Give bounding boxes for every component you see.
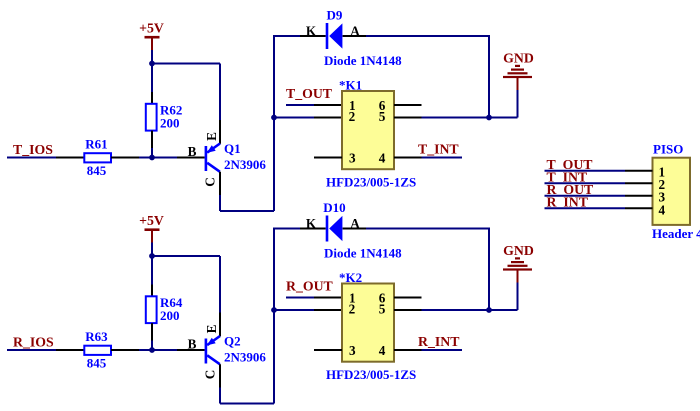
svg-text:R61: R61 <box>85 137 107 152</box>
wire collector down-right (bottom) <box>220 364 274 403</box>
relay pin 3 stub (top) <box>314 157 342 159</box>
wire GND stem (top) <box>517 90 519 118</box>
svg-text:2N3906: 2N3906 <box>224 157 266 172</box>
resistor R61 <box>84 137 111 178</box>
junction +5V node (top) <box>149 61 155 67</box>
svg-text:C: C <box>203 177 218 187</box>
wire R_OUT to header pin 3 <box>545 195 653 197</box>
wire anode vertical to pin5 node (bottom) <box>488 228 490 311</box>
relay pin 6 stub (top) <box>394 104 422 106</box>
svg-text:K: K <box>306 23 317 38</box>
svg-text:B: B <box>188 336 197 351</box>
wire R_OUT to relay pin 1 (bottom) <box>286 297 342 299</box>
wire T_OUT to relay pin 1 (top) <box>286 104 342 106</box>
wire +5V stem to junction (bottom) <box>151 243 153 257</box>
svg-text:4: 4 <box>659 203 666 218</box>
wire left vertical cathode net (bottom) <box>273 228 275 404</box>
svg-text:*K2: *K2 <box>339 270 362 285</box>
wire R64 bottom to base junction (bottom) <box>151 323 153 350</box>
junction pin2 node (top) <box>271 115 277 121</box>
wire R62 bottom to base junction (top) <box>151 131 153 158</box>
svg-text:4: 4 <box>379 343 386 358</box>
svg-text:2: 2 <box>349 302 356 317</box>
svg-text:HFD23/005-1ZS: HFD23/005-1ZS <box>326 174 416 189</box>
wire R_IOS to R63 (bottom) <box>7 349 84 351</box>
svg-text:R_INT: R_INT <box>418 334 459 349</box>
wire collector down-right (top) <box>220 172 274 211</box>
wire GND stem (bottom) <box>517 283 519 311</box>
wire cathode to diode (bottom) <box>274 228 326 230</box>
svg-text:Q1: Q1 <box>224 141 241 156</box>
svg-text:5: 5 <box>379 302 386 317</box>
wire T_INT to header pin 2 <box>545 182 653 184</box>
wire diode anode to GND drop (bottom) <box>343 228 489 230</box>
diode D10 1N4148 <box>306 200 402 260</box>
svg-text:R_OUT: R_OUT <box>286 279 333 294</box>
svg-text:4: 4 <box>379 150 386 165</box>
power +5V (bottom) <box>139 213 164 243</box>
wire cathode to diode (top) <box>274 35 326 37</box>
relay K2 HFD23/005-1ZS <box>326 270 416 382</box>
svg-text:845: 845 <box>87 356 107 371</box>
svg-text:3: 3 <box>349 150 356 165</box>
svg-text:T_IOS: T_IOS <box>13 142 53 157</box>
junction pin2 node (bottom) <box>271 307 277 313</box>
svg-text:D9: D9 <box>327 7 343 22</box>
ground GND (top) <box>503 50 534 90</box>
wire diode anode to GND drop (top) <box>343 35 489 37</box>
svg-text:5: 5 <box>379 109 386 124</box>
wire R61 to base (top) <box>111 157 205 159</box>
svg-text:GND: GND <box>503 50 534 65</box>
svg-text:B: B <box>188 144 197 159</box>
wire emitter vertical (bottom) <box>219 256 221 336</box>
wire +5V junction to emitter drop (top) <box>152 63 220 65</box>
svg-text:+5V: +5V <box>139 21 164 36</box>
svg-text:2N3906: 2N3906 <box>224 349 266 364</box>
wire R_INT to header pin 4 <box>545 207 653 209</box>
relay K2 pin numbers <box>349 290 386 358</box>
svg-text:Diode 1N4148: Diode 1N4148 <box>324 245 402 260</box>
relay pin 3 stub (bottom) <box>314 349 342 351</box>
wire junction to R62 top (top) <box>151 64 153 104</box>
svg-text:R_IOS: R_IOS <box>13 335 54 350</box>
wire anode vertical to pin5 node (top) <box>488 35 490 118</box>
resistor R64 <box>146 295 183 323</box>
wire T_OUT to header pin 1 <box>545 170 653 172</box>
svg-text:845: 845 <box>87 163 107 178</box>
svg-text:3: 3 <box>349 343 356 358</box>
wire node to relay pin 2 (bottom) <box>274 309 342 311</box>
svg-text:K: K <box>306 216 317 231</box>
svg-text:D10: D10 <box>323 200 345 215</box>
ground GND (bottom) <box>503 243 534 283</box>
wire relay pin 5 to GND node (top) <box>394 117 518 119</box>
wire +5V stem to junction (top) <box>151 50 153 64</box>
header pin numbers 1-4 <box>659 165 666 218</box>
svg-text:+5V: +5V <box>139 213 164 228</box>
svg-text:HFD23/005-1ZS: HFD23/005-1ZS <box>326 367 416 382</box>
diode D9 1N4148 <box>306 7 402 68</box>
svg-text:E: E <box>204 132 219 141</box>
resistor R63 <box>84 329 111 370</box>
svg-text:T_OUT: T_OUT <box>286 86 332 101</box>
relay K1 HFD23/005-1ZS <box>326 78 416 190</box>
wire relay pin 4 to T_INT (top) <box>394 157 462 159</box>
resistor R62 <box>146 102 183 130</box>
svg-text:200: 200 <box>160 115 180 130</box>
power +5V (top) <box>139 21 164 51</box>
svg-text:*K1: *K1 <box>339 78 362 93</box>
svg-text:E: E <box>204 324 219 333</box>
junction GND node (bottom) <box>486 307 492 313</box>
wire left vertical cathode net (top) <box>273 35 275 211</box>
junction base node (bottom) <box>149 347 155 353</box>
relay pin 6 stub (bottom) <box>394 297 422 299</box>
junction +5V node (bottom) <box>149 253 155 259</box>
wire junction to R64 top (bottom) <box>151 256 153 296</box>
transistor Q1 2N3906 (PNP) <box>188 132 267 187</box>
svg-text:T_INT: T_INT <box>418 141 459 156</box>
svg-text:PISO: PISO <box>653 142 683 157</box>
relay K1 pin numbers <box>349 98 386 166</box>
wire relay pin 5 to GND node (bottom) <box>394 309 518 311</box>
junction GND node (top) <box>486 115 492 121</box>
wire R63 to base (bottom) <box>111 349 205 351</box>
svg-text:GND: GND <box>503 243 534 258</box>
svg-text:C: C <box>203 370 218 380</box>
transistor Q2 2N3906 (PNP) <box>188 324 267 379</box>
wire emitter vertical (top) <box>219 64 221 144</box>
wire relay pin 4 to R_INT (bottom) <box>394 349 462 351</box>
svg-text:Header 4: Header 4 <box>652 226 700 241</box>
junction base node (top) <box>149 155 155 161</box>
connector P? PISO Header 4 <box>652 142 700 242</box>
svg-text:Q2: Q2 <box>224 334 241 349</box>
svg-text:2: 2 <box>349 109 356 124</box>
svg-text:R63: R63 <box>85 329 108 344</box>
svg-text:Diode 1N4148: Diode 1N4148 <box>324 53 402 68</box>
svg-text:200: 200 <box>160 308 180 323</box>
wire +5V junction to emitter drop (bottom) <box>152 255 220 257</box>
wire node to relay pin 2 (top) <box>274 117 342 119</box>
wire T_IOS to R61 (top) <box>7 157 84 159</box>
